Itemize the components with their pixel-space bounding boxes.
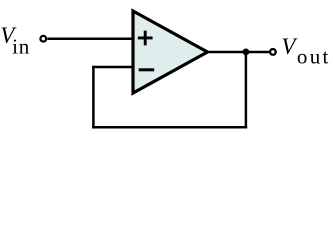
op-amp U1 body — [133, 11, 208, 93]
junction dot — [243, 49, 250, 56]
svg-text:V: V — [281, 34, 298, 59]
wire output — [209, 51, 269, 54]
node Vout label — [281, 34, 328, 68]
wire feedback left vertical — [92, 66, 95, 129]
input terminal (open circle) — [40, 36, 46, 42]
wire Vin to non-inverting input — [47, 37, 133, 40]
op-amp + marker — [138, 31, 153, 46]
svg-text:in: in — [12, 35, 30, 59]
wire feedback to inverting input — [92, 66, 133, 69]
wire feedback bottom — [92, 126, 247, 129]
node Vin label — [0, 23, 30, 59]
wire feedback right vertical — [245, 52, 248, 129]
svg-text:out: out — [297, 45, 329, 69]
output terminal (open circle) — [270, 49, 276, 55]
op-amp - marker — [139, 68, 155, 71]
